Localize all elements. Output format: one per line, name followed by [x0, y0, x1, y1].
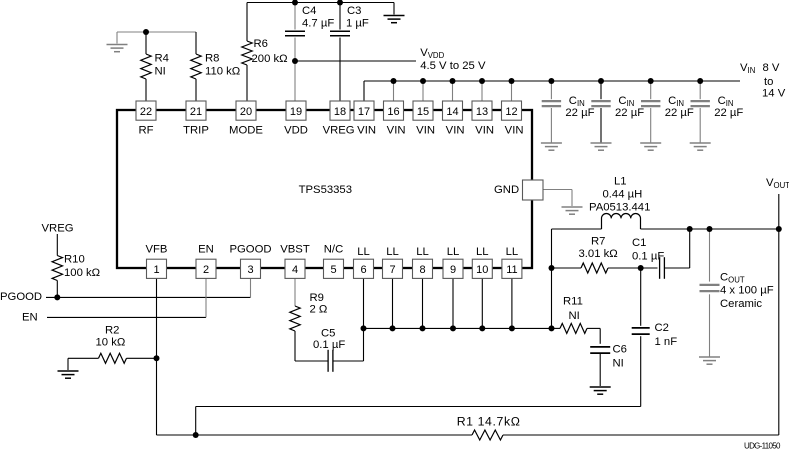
svg-text:R11: R11: [563, 295, 583, 307]
svg-text:18: 18: [334, 106, 346, 118]
svg-text:VFB: VFB: [146, 244, 168, 256]
svg-text:NI: NI: [569, 310, 580, 322]
svg-text:20: 20: [240, 106, 252, 118]
svg-text:VIN: VIN: [387, 125, 406, 137]
svg-text:15: 15: [417, 106, 429, 118]
svg-text:1 µF: 1 µF: [346, 17, 369, 29]
svg-text:R4: R4: [155, 53, 169, 65]
svg-text:N/C: N/C: [324, 244, 343, 256]
svg-text:R9: R9: [310, 292, 324, 304]
svg-text:R2: R2: [105, 325, 119, 337]
svg-text:17: 17: [358, 106, 370, 118]
svg-text:19: 19: [290, 106, 302, 118]
svg-text:R8: R8: [205, 53, 219, 65]
svg-text:3.01 kΩ: 3.01 kΩ: [579, 248, 618, 260]
svg-text:22 µF: 22 µF: [714, 107, 743, 119]
svg-text:10 kΩ: 10 kΩ: [96, 337, 126, 349]
svg-text:TPS53353: TPS53353: [299, 184, 352, 196]
svg-text:4.5 V to 25 V: 4.5 V to 25 V: [420, 60, 486, 72]
svg-text:PGOOD: PGOOD: [0, 291, 42, 303]
svg-text:GND: GND: [494, 184, 519, 196]
svg-text:21: 21: [190, 106, 202, 118]
svg-text:C1: C1: [632, 237, 646, 249]
svg-text:NI: NI: [613, 358, 624, 370]
svg-text:13: 13: [476, 106, 488, 118]
svg-text:3: 3: [247, 264, 253, 276]
svg-text:EN: EN: [198, 244, 214, 256]
svg-text:0.1 µF: 0.1 µF: [632, 250, 664, 262]
svg-text:100 kΩ: 100 kΩ: [64, 267, 100, 279]
svg-text:2: 2: [203, 264, 209, 276]
svg-text:L1: L1: [614, 176, 627, 188]
svg-text:VDD: VDD: [284, 125, 308, 137]
svg-text:UDG-11050: UDG-11050: [744, 441, 781, 449]
svg-text:12: 12: [505, 106, 517, 118]
svg-text:22 µF: 22 µF: [665, 107, 694, 119]
svg-text:NI: NI: [155, 66, 166, 78]
svg-text:PGOOD: PGOOD: [229, 244, 271, 256]
svg-text:22 µF: 22 µF: [565, 107, 594, 119]
svg-text:to: to: [764, 76, 773, 88]
svg-text:6: 6: [360, 264, 366, 276]
svg-text:16: 16: [387, 106, 399, 118]
svg-text:10: 10: [476, 264, 488, 276]
svg-text:14 V: 14 V: [762, 87, 786, 99]
svg-text:C5: C5: [321, 327, 335, 339]
svg-text:PA0513.441: PA0513.441: [589, 202, 650, 214]
svg-text:MODE: MODE: [229, 125, 263, 137]
svg-text:R6: R6: [254, 38, 268, 50]
svg-text:VBST: VBST: [280, 244, 310, 256]
svg-text:RF: RF: [138, 125, 153, 137]
svg-text:22 µF: 22 µF: [615, 107, 644, 119]
svg-text:C6: C6: [613, 344, 627, 356]
svg-text:5: 5: [330, 264, 336, 276]
svg-text:1: 1: [153, 264, 159, 276]
svg-text:22: 22: [140, 106, 152, 118]
svg-text:LL: LL: [386, 246, 399, 258]
svg-text:14: 14: [446, 106, 458, 118]
svg-text:R10: R10: [64, 254, 85, 266]
svg-text:EN: EN: [22, 312, 38, 324]
svg-text:8 V: 8 V: [763, 62, 780, 74]
svg-text:VIN: VIN: [416, 125, 435, 137]
svg-text:VREG: VREG: [323, 125, 355, 137]
svg-text:LL: LL: [506, 246, 519, 258]
svg-text:VIN: VIN: [357, 125, 376, 137]
svg-text:C2: C2: [655, 322, 669, 334]
svg-text:VIN: VIN: [505, 125, 524, 137]
svg-text:11: 11: [506, 264, 517, 276]
svg-text:200 kΩ: 200 kΩ: [252, 53, 288, 65]
svg-text:VREG: VREG: [42, 223, 74, 235]
svg-text:VIN: VIN: [446, 125, 465, 137]
svg-text:1 nF: 1 nF: [655, 336, 678, 348]
svg-text:LL: LL: [476, 246, 489, 258]
svg-text:R1 14.7kΩ: R1 14.7kΩ: [457, 414, 521, 428]
svg-text:9: 9: [450, 264, 456, 276]
svg-text:LL: LL: [357, 246, 370, 258]
svg-text:LL: LL: [416, 246, 429, 258]
svg-text:110 kΩ: 110 kΩ: [205, 66, 240, 78]
svg-text:2 Ω: 2 Ω: [310, 304, 328, 316]
svg-text:8: 8: [419, 264, 425, 276]
svg-text:C4: C4: [302, 5, 316, 17]
svg-text:LL: LL: [447, 246, 460, 258]
svg-text:7: 7: [389, 264, 395, 276]
svg-text:4 x 100 µF: 4 x 100 µF: [720, 285, 774, 297]
svg-text:TRIP: TRIP: [183, 125, 209, 137]
svg-text:4: 4: [292, 264, 298, 276]
svg-text:0.1 µF: 0.1 µF: [313, 339, 345, 351]
svg-text:Ceramic: Ceramic: [720, 298, 762, 310]
svg-text:C3: C3: [347, 5, 361, 17]
svg-text:R7: R7: [591, 235, 605, 247]
svg-text:4.7 µF: 4.7 µF: [302, 17, 334, 29]
svg-text:VIN: VIN: [475, 125, 494, 137]
svg-text:0.44 µH: 0.44 µH: [603, 189, 643, 201]
